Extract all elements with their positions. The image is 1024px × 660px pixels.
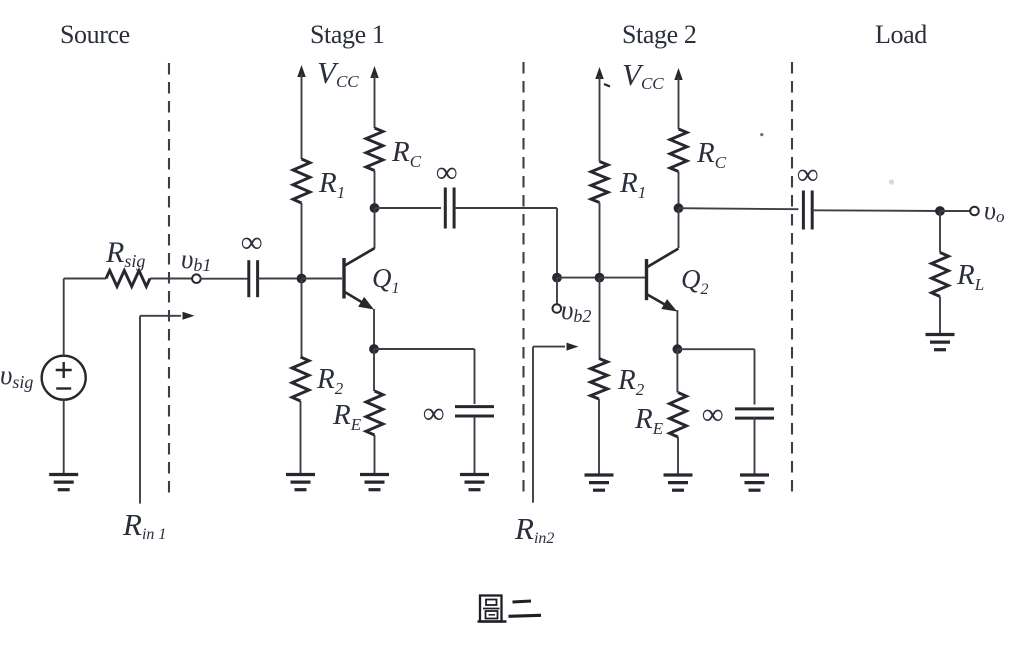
label C2 value infinity bbox=[436, 156, 457, 189]
svg-text:υb1: υb1 bbox=[181, 244, 211, 275]
wire vsig bottom to ground bbox=[63, 400, 65, 473]
label vb1 bbox=[181, 244, 211, 275]
svg-text:RC: RC bbox=[391, 136, 422, 171]
wire C2 to stage2 base bend bbox=[454, 208, 557, 278]
label R2 stage2 bbox=[617, 364, 645, 399]
section label Source bbox=[60, 20, 130, 49]
wire RE bottom to ground stage1 bbox=[374, 435, 376, 473]
caption figure 2 chinese bbox=[478, 596, 542, 622]
boundary dashed line stage1/stage2 bbox=[522, 62, 524, 493]
wire output node to RL bbox=[939, 211, 941, 253]
resistor RL bbox=[932, 253, 949, 297]
wire RE bottom to ground stage2 bbox=[677, 437, 679, 474]
svg-text:Rin 1: Rin 1 bbox=[122, 507, 166, 543]
node collector Q1 junction bbox=[370, 203, 380, 213]
resistor RE stage1 bbox=[366, 391, 383, 435]
label Rin1 bbox=[122, 507, 166, 543]
svg-text:∞: ∞ bbox=[436, 156, 457, 189]
label CE1 value infinity bbox=[423, 397, 444, 430]
label VCC stage1 bbox=[317, 55, 359, 91]
label R1 stage2 bbox=[619, 167, 646, 202]
capacitor CE1 bypass bbox=[455, 407, 494, 416]
svg-text:∞: ∞ bbox=[241, 226, 262, 259]
svg-text:RL: RL bbox=[956, 259, 984, 294]
ground RL load bbox=[926, 335, 955, 350]
node base Q2 junction bbox=[595, 273, 605, 283]
wire Rsig to node vb1 bbox=[150, 278, 193, 280]
svg-text:Stage 1: Stage 1 bbox=[310, 20, 384, 49]
transistor Q2 bbox=[647, 249, 679, 312]
wire RL bottom to ground bbox=[939, 297, 941, 334]
svg-text:RC: RC bbox=[696, 137, 727, 172]
wire output node to vo terminal bbox=[940, 210, 971, 212]
wire collector node stage2 to output capacitor C3 bbox=[679, 208, 799, 209]
svg-text:RE: RE bbox=[634, 403, 664, 438]
ground bypass capacitor stage1 bbox=[460, 475, 489, 490]
label RC stage1 bbox=[391, 136, 422, 171]
wire vb1 to coupling capacitor C1 bbox=[200, 278, 249, 280]
faint smudge artifact load section bbox=[889, 179, 894, 184]
node emitter Q1 junction bbox=[369, 344, 379, 354]
node vb1 open circle bbox=[192, 274, 201, 283]
ground RE stage2 bbox=[664, 475, 693, 490]
label Rsig bbox=[105, 236, 145, 271]
wire bypass capacitor to ground stage1 bbox=[474, 417, 476, 474]
label Q2 bbox=[681, 264, 709, 298]
wire R1 bottom to base node stage2 bbox=[599, 203, 601, 278]
section label Stage 1 bbox=[310, 20, 384, 49]
label RL bbox=[956, 259, 984, 294]
resistor Rsig bbox=[106, 271, 150, 287]
arrow Rin1 looking into stage 1 bbox=[140, 312, 195, 504]
svg-text:Stage 2: Stage 2 bbox=[622, 20, 696, 49]
transistor Q1 bbox=[344, 248, 375, 309]
svg-text:υsig: υsig bbox=[0, 360, 33, 392]
ground bypass capacitor stage2 bbox=[740, 475, 769, 490]
label C1 value infinity bbox=[241, 226, 262, 259]
ground RE stage1 bbox=[360, 475, 389, 490]
resistor R2 stage1 bbox=[292, 357, 309, 401]
arrow Rin2 looking into stage 2 bbox=[533, 343, 579, 503]
capacitor C3 infinite coupling output bbox=[803, 191, 812, 230]
label Q1 bbox=[372, 263, 400, 297]
label R2 stage1 bbox=[316, 363, 344, 398]
label RC stage2 bbox=[696, 137, 727, 172]
ground source bbox=[49, 475, 78, 490]
wire vb2 node to stage2 base node bbox=[557, 277, 600, 279]
label Rin2 bbox=[514, 511, 554, 547]
wire emitter node to RE stage1 bbox=[373, 349, 375, 391]
resistor R1 stage2 bbox=[591, 162, 608, 203]
label C3 value infinity bbox=[797, 158, 818, 191]
svg-text:∞: ∞ bbox=[423, 397, 444, 430]
section label Stage 2 bbox=[622, 20, 696, 49]
label RE stage1 bbox=[332, 399, 362, 434]
wire junction down to vb2 terminal bbox=[556, 278, 558, 305]
svg-text:R1: R1 bbox=[619, 167, 646, 202]
wire collector node down to Q2 collector bbox=[678, 208, 680, 248]
wire R2 bottom to ground stage1 bbox=[300, 401, 302, 473]
resistor R1 stage1 bbox=[293, 159, 310, 203]
wire emitter node to bypass capacitor stage2 bbox=[677, 349, 754, 404]
wire Q1 emitter down to emitter node bbox=[373, 309, 375, 349]
wire base node to R2 stage2 bbox=[599, 278, 601, 359]
resistor RC stage2 bbox=[670, 129, 687, 172]
svg-text:VCC: VCC bbox=[622, 57, 664, 93]
resistor RE stage2 bbox=[670, 393, 687, 438]
label CE2 value infinity bbox=[702, 398, 723, 431]
node collector Q2 junction bbox=[674, 203, 684, 213]
wire C1 to base node Q1 bbox=[258, 278, 302, 280]
wire vb2 node to Q2 base bbox=[600, 277, 646, 279]
node output junction bbox=[935, 206, 945, 216]
wire emitter node to bypass capacitor stage1 bbox=[374, 349, 475, 404]
capacitor C2 infinite coupling stage1 output bbox=[445, 188, 454, 229]
node base Q1 junction bbox=[297, 274, 307, 284]
ground R2 stage2 bbox=[585, 475, 614, 490]
boundary dashed line stage2/load bbox=[791, 62, 793, 494]
svg-text:Rsig: Rsig bbox=[105, 236, 145, 271]
label vo bbox=[984, 196, 1004, 226]
wire vsig top to Rsig bbox=[64, 279, 106, 356]
svg-text:RE: RE bbox=[332, 399, 362, 434]
svg-text:υb2: υb2 bbox=[561, 295, 591, 326]
wire RC bottom to collector node stage1 bbox=[374, 171, 376, 209]
svg-text:υo: υo bbox=[984, 196, 1004, 226]
capacitor C1 infinite coupling bbox=[249, 260, 258, 297]
label vb2 bbox=[561, 295, 591, 326]
svg-text:∞: ∞ bbox=[702, 398, 723, 431]
power VCC arrow stage2 R1 branch bbox=[595, 67, 603, 162]
voltage source vsig bbox=[42, 356, 86, 400]
capacitor CE2 bypass bbox=[735, 409, 774, 418]
label RE stage2 bbox=[634, 403, 664, 438]
wire base node to R2 stage1 bbox=[301, 279, 303, 358]
wire C3 to output node bbox=[812, 209, 940, 212]
section label Load bbox=[875, 20, 927, 49]
resistor R2 stage2 bbox=[591, 359, 608, 400]
power VCC arrow stage1 R1 branch bbox=[297, 65, 305, 159]
resistor RC stage1 bbox=[366, 128, 383, 171]
stray tick mark near VCC arrow stage2 bbox=[604, 84, 610, 87]
wire emitter node to RE stage2 bbox=[676, 349, 678, 392]
svg-text:Load: Load bbox=[875, 20, 927, 49]
svg-text:Q2: Q2 bbox=[681, 264, 709, 298]
svg-text:R2: R2 bbox=[617, 364, 645, 399]
svg-text:∞: ∞ bbox=[797, 158, 818, 191]
wire Q2 emitter down to emitter node bbox=[676, 310, 678, 349]
terminal vo open circle bbox=[970, 207, 979, 216]
svg-text:R2: R2 bbox=[316, 363, 344, 398]
svg-text:VCC: VCC bbox=[317, 55, 359, 91]
svg-text:R1: R1 bbox=[318, 167, 345, 202]
wire bypass capacitor to ground stage2 bbox=[754, 417, 756, 474]
svg-text:Source: Source bbox=[60, 20, 130, 49]
wire RC bottom to collector node stage2 bbox=[678, 172, 680, 209]
ground R2 stage1 bbox=[286, 475, 315, 490]
power VCC arrow stage1 RC branch bbox=[370, 66, 378, 128]
label VCC stage2 bbox=[622, 57, 664, 93]
wire R1 bottom to base node stage1 bbox=[301, 203, 303, 279]
boundary dashed line source/stage1 bbox=[168, 63, 170, 493]
label vsig bbox=[0, 360, 33, 392]
power VCC arrow stage2 RC branch bbox=[674, 68, 682, 129]
wire R2 bottom to ground stage2 bbox=[598, 399, 600, 474]
node emitter Q2 junction bbox=[673, 344, 683, 354]
label R1 stage1 bbox=[318, 167, 345, 202]
node vb2 junction bbox=[552, 273, 562, 283]
wire collector node to coupling capacitor C2 bbox=[375, 207, 442, 209]
wire collector node down to Q1 collector bbox=[374, 208, 376, 249]
wire base node to Q1 base bbox=[302, 278, 343, 280]
svg-text:Q1: Q1 bbox=[372, 263, 400, 297]
stray dot artifact stage2 bbox=[760, 133, 763, 136]
terminal vb2 open circle bbox=[553, 304, 562, 313]
svg-text:Rin2: Rin2 bbox=[514, 511, 554, 547]
